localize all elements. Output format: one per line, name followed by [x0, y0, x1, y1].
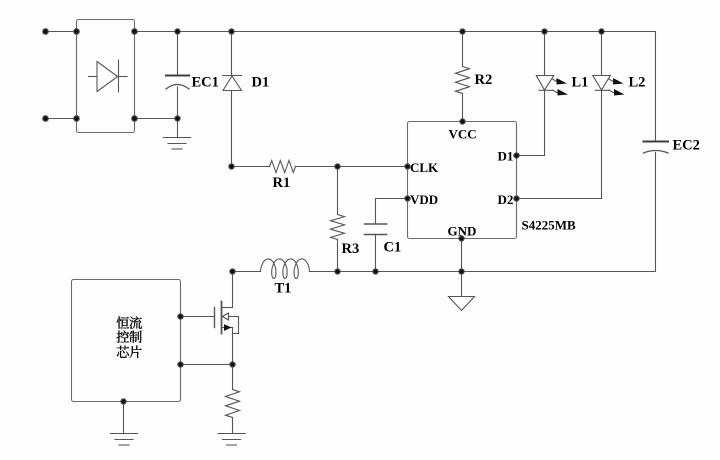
node GND rail junction	[459, 269, 464, 274]
inductor T1	[261, 259, 310, 279]
node bridge - output	[132, 116, 138, 122]
svg-text:VCC: VCC	[449, 127, 477, 142]
wire box to ground	[123, 402, 125, 434]
resistor R1	[232, 161, 338, 173]
wire L2 to D2 pin	[517, 198, 602, 200]
node GND pin	[459, 236, 464, 241]
wire R1 to CLK	[338, 166, 408, 168]
label VCC pin	[449, 127, 477, 142]
label L2	[629, 75, 646, 91]
LED L2 emission arrows	[609, 78, 625, 96]
wire source sense	[181, 364, 233, 366]
LED L2	[593, 32, 611, 199]
ground triangle under IC	[449, 297, 475, 311]
control chip box 恒流控制芯片	[72, 280, 181, 402]
node L1 top junction	[542, 29, 547, 34]
bridge rectifier box	[77, 20, 135, 133]
node source junction	[230, 362, 235, 367]
wire D1 cathode lead	[231, 32, 233, 76]
LED L1	[536, 32, 554, 156]
label T1	[275, 281, 292, 297]
label S4225MB	[522, 218, 577, 233]
wire AC input bottom	[46, 118, 77, 120]
resistor R3	[331, 167, 345, 272]
resistor R2	[456, 32, 470, 122]
capacitor EC1	[166, 76, 189, 119]
svg-text:S4225MB: S4225MB	[522, 218, 577, 233]
wire EC1 to ground	[177, 119, 179, 138]
wire VDD to C1	[376, 199, 408, 224]
svg-text:D2: D2	[498, 192, 514, 207]
node L2 top junction	[599, 29, 604, 34]
node EC1 ground junction	[175, 116, 180, 121]
svg-text:D1: D1	[252, 75, 270, 91]
svg-text:EC2: EC2	[673, 138, 700, 154]
label C1	[384, 240, 402, 256]
svg-text:L1: L1	[572, 75, 589, 91]
node R1 left junction	[229, 164, 234, 169]
node EC1 top junction	[175, 29, 180, 34]
ground under control box	[111, 434, 138, 446]
label GND pin	[448, 224, 477, 239]
label 恒流控制芯片	[117, 316, 142, 358]
node gate wire at box	[178, 314, 183, 319]
node R2 top junction	[460, 29, 465, 34]
label R3	[342, 241, 360, 257]
svg-text:R1: R1	[273, 175, 291, 191]
svg-text:L2: L2	[629, 75, 646, 91]
label D1 pin	[498, 149, 514, 164]
wire bottom rail right	[310, 271, 656, 273]
node C1 bottom junction	[373, 269, 378, 274]
label EC2	[673, 138, 700, 154]
label R1	[273, 175, 291, 191]
wire EC1 top lead	[177, 32, 179, 75]
node VCC pin	[460, 119, 465, 124]
wire V+ top rail	[135, 31, 656, 33]
capacitor EC2	[644, 142, 669, 272]
wire bridge - output to EC1	[135, 118, 178, 120]
node D1 pin	[514, 153, 519, 158]
node AC input bottom terminal	[43, 116, 80, 122]
node R3 top junction	[335, 164, 340, 169]
label D2 pin	[498, 192, 514, 207]
op-amp U1 S4225MB IC box	[408, 122, 517, 239]
wire GND pin to rail	[461, 239, 463, 272]
wire AC input top	[46, 31, 77, 33]
label L1	[572, 75, 589, 91]
svg-text:VDD: VDD	[410, 192, 438, 207]
label VDD pin	[410, 192, 438, 207]
node box ground pin	[121, 399, 126, 404]
node R3 bottom junction	[335, 269, 340, 274]
wire bottom rail left	[233, 271, 261, 273]
wire top rail to EC2	[655, 32, 657, 141]
node CLK pin	[405, 164, 410, 169]
transistor Q1 MOSFET	[215, 272, 239, 365]
bridge internal diode	[89, 60, 128, 92]
label EC1	[192, 75, 219, 91]
node AC input top terminal	[43, 29, 80, 35]
diode D1	[223, 76, 242, 167]
node drain junction	[230, 269, 235, 274]
wire L1 to D1 pin	[517, 155, 545, 157]
node source sense at box	[178, 362, 183, 367]
node VDD pin	[405, 196, 410, 201]
wire GND to ground symbol	[461, 272, 463, 297]
label D1	[252, 75, 270, 91]
svg-text:C1: C1	[384, 240, 402, 256]
svg-text:R3: R3	[342, 241, 360, 257]
svg-text:CLK: CLK	[410, 160, 439, 175]
label R2	[475, 72, 493, 88]
svg-text:T1: T1	[275, 281, 292, 297]
svg-text:R2: R2	[475, 72, 493, 88]
ground under source resistor	[218, 434, 245, 446]
node bridge + output	[132, 29, 138, 35]
ground under EC1	[164, 138, 191, 150]
resistor R4 source sense	[226, 365, 240, 434]
svg-text:EC1: EC1	[192, 75, 219, 91]
wire C1 to rail	[375, 235, 377, 272]
node D1 top junction	[229, 29, 234, 34]
wire gate	[181, 316, 215, 318]
capacitor C1	[365, 224, 387, 235]
LED L1 emission arrows	[553, 78, 569, 96]
node D2 pin	[514, 196, 519, 201]
label CLK pin	[410, 160, 439, 175]
svg-text:D1: D1	[498, 149, 514, 164]
